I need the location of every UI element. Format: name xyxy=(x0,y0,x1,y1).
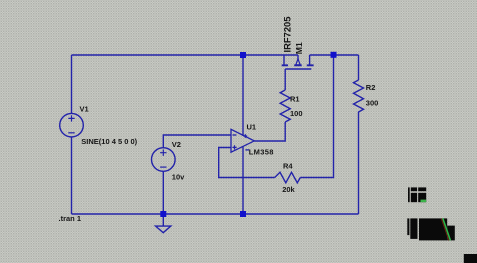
window fragment: bottom-right corner block xyxy=(464,254,477,263)
wire left vertical V1 top lead xyxy=(71,55,73,114)
svg-text:LM358: LM358 xyxy=(249,148,274,157)
junction at op-amp V- on bottom rail xyxy=(240,211,246,217)
wire op-amp output to R1 bottom xyxy=(254,122,285,141)
resistor R1 xyxy=(280,90,290,122)
wire op-amp V- supply drop xyxy=(242,147,244,215)
wire M1 gate lead to R1 top xyxy=(284,69,286,90)
svg-text:10v: 10v xyxy=(172,173,185,182)
junction at op-amp V+ on top rail xyxy=(240,52,246,58)
svg-text:300: 300 xyxy=(366,99,379,108)
svg-text:R2: R2 xyxy=(366,83,376,92)
resistor R4 xyxy=(275,172,301,183)
svg-text:V2: V2 xyxy=(172,140,181,149)
wire ground stub xyxy=(162,214,164,226)
wire top rail right net (M1 drain to R2/R4 node) xyxy=(310,54,359,56)
wire V2 bottom lead xyxy=(162,171,164,214)
svg-text:U1: U1 xyxy=(247,123,257,132)
junction at drain node on top rail xyxy=(331,52,337,58)
wire feedback from + input to R4 left xyxy=(219,148,275,178)
junction at V2/ground on bottom rail xyxy=(160,211,166,217)
svg-text:.tran 1: .tran 1 xyxy=(59,214,82,223)
wire R4 right to drain node xyxy=(300,55,333,178)
wire op-amp V+ supply drop xyxy=(242,55,244,136)
ground xyxy=(156,226,171,233)
svg-text:R1: R1 xyxy=(290,95,300,104)
voltage source V1 xyxy=(60,113,84,137)
op-amp U1 xyxy=(231,129,254,152)
transistor M1 (PMOS) xyxy=(282,55,314,69)
svg-text:V1: V1 xyxy=(80,105,89,114)
voltage source V2 xyxy=(152,148,176,172)
svg-text:M1: M1 xyxy=(294,42,304,54)
wire V2 top lead to op-amp inverting input xyxy=(163,135,231,148)
wire bottom rail (ground net) xyxy=(72,213,359,215)
svg-text:SINE(10 4 5 0 0): SINE(10 4 5 0 0) xyxy=(81,137,137,146)
wire R2 bottom lead xyxy=(358,116,360,215)
window fragment: small table icon xyxy=(408,187,426,202)
svg-text:IRF7205: IRF7205 xyxy=(282,17,293,53)
wire V1 bottom lead xyxy=(71,137,73,214)
svg-text:20k: 20k xyxy=(282,185,295,194)
svg-text:R4: R4 xyxy=(283,162,293,171)
resistor R2 xyxy=(354,80,364,116)
wire top rail left net (V1+ to M1 source/bulk) xyxy=(72,54,299,56)
wire R2 top lead xyxy=(358,55,360,80)
svg-text:100: 100 xyxy=(290,109,303,118)
window fragment: waveform pane with green trace xyxy=(407,218,455,240)
